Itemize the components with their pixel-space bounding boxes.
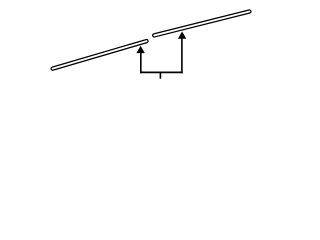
terminal lead at center	[159, 72, 161, 78]
conductor bar left segment	[53, 41, 147, 69]
wire from right wiper down	[181, 38, 183, 73]
wire joining the two wipers	[140, 71, 183, 73]
conductor bar right segment	[154, 12, 249, 36]
wire from left wiper down	[140, 53, 142, 74]
wiper contact arrow right	[178, 32, 186, 39]
wiper contact arrow left	[136, 46, 144, 53]
